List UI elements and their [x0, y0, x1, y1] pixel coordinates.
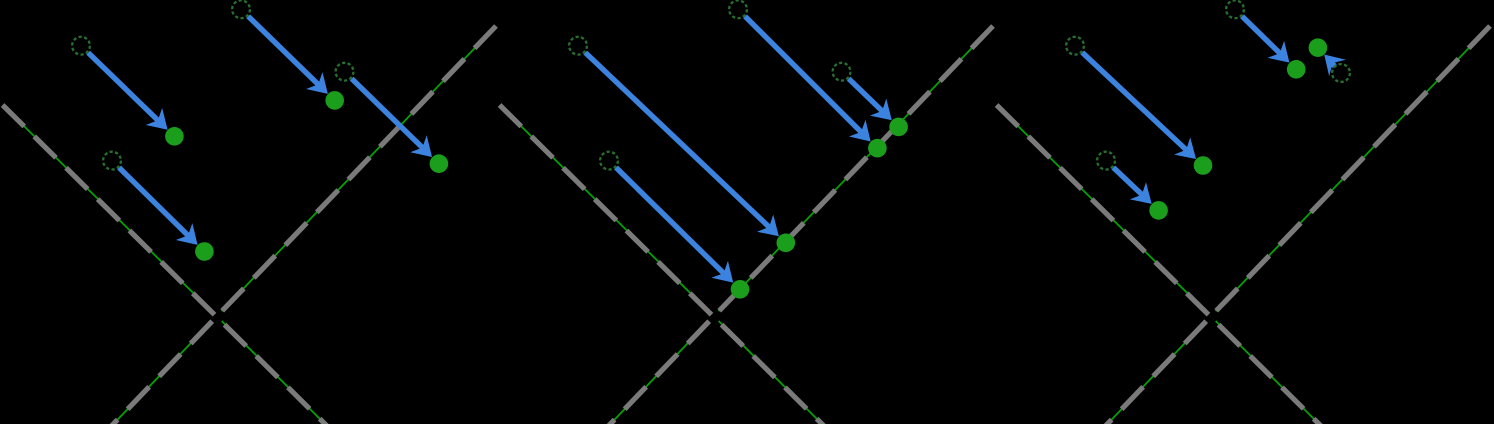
panel 1 decision line 2 (green under-line, top-right to bottom-left) [222, 26, 496, 311]
panel 2 perturbation arrow 4 (projected to boundary) [849, 79, 882, 111]
panel 3 clean point 4 (dashed ring) [1332, 64, 1350, 82]
panel 2 decision line 1 (gray dashed overlay) [500, 105, 824, 424]
panel 2 boundary point 4 (green dot) [889, 118, 908, 137]
panel 1 decision line 2 (gray dashed overlay) [111, 26, 497, 424]
panel 3 decision line 1 (green under-line, top-left to bottom-right) [997, 105, 1206, 311]
panel 2 perturbation arrow 3 (projected to boundary) [745, 16, 861, 132]
panel 3 clean point 2 (dashed ring) [1097, 152, 1115, 170]
panel 2 boundary point 2 (green dot) [731, 280, 750, 299]
panel 3 adversarial point 2 (green dot) [1149, 201, 1168, 220]
panel 2 clean point 2 (dashed ring) [600, 152, 618, 170]
panel 1 perturbation arrow 2 [119, 168, 188, 236]
panel 2 clean point 3 (dashed ring) [729, 0, 747, 18]
panel 1 adversarial point 2 (green dot) [195, 242, 214, 261]
panel 1 clean point 2 (dashed ring) [103, 152, 121, 170]
panel 3 perturbation arrow 3 [1242, 16, 1280, 53]
panel 2 perturbation arrow 1 (projected to boundary) [585, 53, 769, 227]
panel 3 adversarial point 4 (green dot) [1309, 38, 1328, 57]
panel 3 decision line 2 (green under-line, top-right to bottom-left) [1216, 26, 1490, 311]
panel 3 backward perturbation arrow 4 [1332, 63, 1335, 66]
panel 2 boundary point 1 (green dot) [777, 234, 796, 253]
panel 1 clean point 4 (dashed ring) [336, 63, 354, 81]
panel 3 decision line 2 (gray dashed overlay) [1105, 26, 1491, 424]
panel 1 perturbation arrow 1 [88, 53, 158, 121]
panel 2 decision line 2 (gray dashed overlay) [608, 26, 994, 424]
panel 3 adversarial point 1 (green dot) [1194, 156, 1213, 175]
panel 1 perturbation arrow 4 [352, 79, 423, 148]
panel 1 clean point 3 (dashed ring) [232, 0, 250, 18]
panel 3 perturbation arrow 2 [1113, 168, 1142, 195]
panel 1 adversarial point 1 (green dot) [165, 127, 184, 146]
panel 3 perturbation arrow 1 [1082, 53, 1186, 150]
panel 2 decision line 1 (green under-line, top-left to bottom-right) [500, 105, 709, 311]
panel 1 clean point 1 (dashed ring) [72, 37, 90, 55]
panel 1 adversarial point 4 (green dot) [430, 154, 449, 173]
panel 1 adversarial point 3 (green dot) [325, 91, 344, 110]
panel 3 clean point 1 (dashed ring) [1066, 37, 1084, 55]
panel 3 clean point 3 (dashed ring) [1226, 0, 1244, 18]
panel 2 decision line 2 (green under-line, top-right to bottom-left) [719, 26, 993, 311]
panel 3 decision line 1 (gray dashed overlay) [997, 105, 1321, 424]
panel 2 clean point 1 (dashed ring) [569, 37, 587, 55]
panel 2 boundary point 3 (green dot) [868, 139, 887, 158]
panel 1 perturbation arrow 3 [248, 16, 318, 84]
panel 2 clean point 4 (dashed ring) [833, 63, 851, 81]
panel 3 adversarial point 3 (green dot) [1287, 60, 1306, 79]
panel 1 decision line 1 (gray dashed overlay) [3, 105, 327, 424]
panel 1 decision line 1 (green under-line, top-left to bottom-right) [3, 105, 212, 311]
panel 2 perturbation arrow 2 (projected to boundary) [616, 168, 724, 274]
